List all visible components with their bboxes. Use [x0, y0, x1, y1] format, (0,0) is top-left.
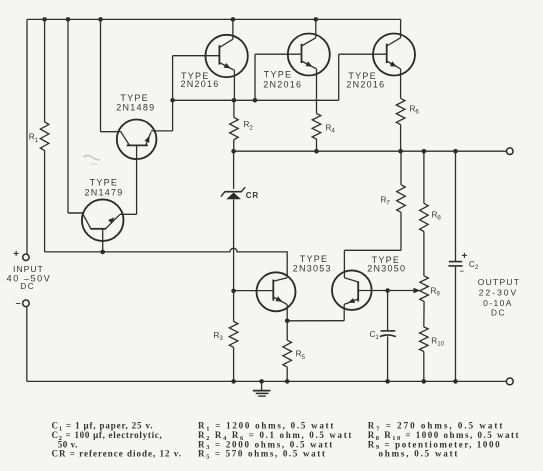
label output DC: [491, 308, 506, 318]
junction: 2N3053 base node: [231, 289, 236, 294]
junction: R6/R7 on mid rail: [398, 149, 403, 154]
label INPUT: [13, 264, 44, 274]
transistor Q3 emitter arrow: [390, 61, 397, 66]
svg-text:2N2016: 2N2016: [181, 79, 220, 89]
diode CR symbol: [221, 187, 245, 199]
parts list R9: [368, 439, 501, 451]
wire: base node to R3: [233, 291, 235, 322]
transistor 2N1479 circle: [82, 199, 124, 241]
wire: CR to 2N3053 base node: [233, 199, 235, 291]
transistor Q1 collector lead: [219, 19, 233, 47]
transistor 2N3053 base bar: [272, 280, 274, 301]
resistor R10: [420, 327, 429, 352]
label R7: [381, 195, 391, 206]
junction: R2 top / Q1 emitter: [232, 98, 237, 103]
transistor 2N1489 base bar: [127, 144, 148, 146]
label input voltage: [7, 273, 52, 283]
transistor 2N1489 circle: [117, 120, 157, 160]
transistor 2N3050 base bar: [357, 281, 359, 301]
svg-text:DC: DC: [20, 281, 35, 291]
svg-text:2N1479: 2N1479: [85, 188, 124, 198]
wire: R8 to R9: [423, 232, 425, 276]
svg-text:ohms, 0.5 watt: ohms, 0.5 watt: [379, 449, 460, 459]
svg-text:CR = reference diode, 12 v.: CR = reference diode, 12 v.: [52, 449, 183, 459]
svg-text:+: +: [462, 251, 468, 262]
svg-text:CR: CR: [246, 191, 259, 200]
terminal: input positive: [23, 254, 29, 260]
transistor 2N1489 emitter arrow: [145, 136, 150, 143]
wire: base line to C1: [387, 291, 389, 331]
transistor 2N3050 circle: [332, 270, 372, 310]
label C2 polarity plus: [462, 251, 468, 262]
wire: R4 to mid rail: [316, 139, 318, 151]
wire: mid rail to CR: [233, 151, 235, 189]
svg-text:R5: R5: [296, 350, 306, 361]
svg-text:OUTPUT: OUTPUT: [478, 277, 520, 287]
transistor Q2 2N2016 circle: [288, 34, 330, 76]
svg-text:2N3053: 2N3053: [293, 263, 332, 273]
transistor Q2 emitter arrow: [306, 61, 313, 66]
svg-text:–: –: [16, 298, 21, 308]
capacitor C1: [380, 331, 396, 337]
parts list R5: [198, 449, 327, 461]
label R8: [432, 210, 442, 221]
parts list R7: [368, 421, 505, 433]
junction: C2 bottom: [453, 379, 458, 384]
label R3: [214, 331, 224, 342]
svg-text:C1: C1: [370, 330, 380, 341]
svg-text:R10: R10: [431, 336, 444, 347]
svg-text:TYPE: TYPE: [264, 69, 293, 79]
resistor R4: [312, 114, 321, 140]
transistor 2N1489 emitter lead: [146, 132, 151, 145]
svg-text:22-30V: 22-30V: [479, 288, 518, 298]
junction: C2 top on mid rail: [453, 149, 458, 154]
wire: R2 to mid rail: [233, 140, 235, 152]
svg-text:2N2016: 2N2016: [263, 79, 302, 89]
transistor Q2 collector lead: [302, 19, 316, 46]
ground symbol: [253, 381, 271, 396]
svg-text:+: +: [13, 249, 19, 260]
label R4: [326, 124, 336, 135]
junction on top rail (2N1489 collector branch): [98, 17, 103, 22]
svg-text:R1: R1: [29, 133, 39, 144]
transistor 2N3050 emitter arrow: [348, 298, 355, 303]
label R1: [29, 133, 39, 144]
wire: 2N1489 emitter to driver node: [151, 100, 173, 131]
wire: top rail to R1: [44, 19, 46, 122]
wire: R6 to mid rail: [400, 125, 402, 152]
svg-text:R8: R8: [432, 210, 442, 221]
terminal: input negative: [23, 300, 30, 307]
transistor 2N3053 collector lead: [273, 278, 287, 282]
wire: R9 to R10: [423, 301, 425, 327]
wire: mid rail to C2: [455, 151, 457, 261]
wire: input + terminal lead: [26, 19, 28, 254]
junction: C1 bottom: [385, 379, 390, 384]
label TYPE 2N2016 (Q3): [346, 71, 385, 90]
svg-text:2N3050: 2N3050: [367, 264, 406, 274]
wire: R1 to bias line: [44, 151, 46, 252]
label output voltage: [479, 288, 518, 298]
junction on top rail (R1 branch): [42, 17, 47, 22]
label R5: [296, 350, 306, 361]
label CR: [246, 191, 259, 200]
junction: Q2 base on node line: [253, 98, 258, 103]
junction: 2N1479 base on bias line: [100, 250, 105, 255]
wire: top rail to 2N1479 collector: [68, 19, 83, 213]
parts list C2: [52, 430, 163, 442]
parts list C1: [52, 421, 154, 433]
label TYPE 2N1479: [85, 178, 124, 198]
label input plus: [13, 249, 19, 260]
transistor Q2 emitter lead: [302, 61, 317, 114]
transistor Q1 2N2016 circle: [205, 35, 247, 77]
junction: R5 bottom: [285, 379, 290, 384]
transistor 2N1489 base lead: [136, 145, 138, 214]
transistor Q3 base bar: [386, 44, 388, 63]
svg-text:C2: C2: [469, 260, 479, 271]
wire: bottom negative rail: [27, 380, 507, 382]
transistor Q3 base lead: [339, 54, 387, 100]
label C1: [370, 330, 380, 341]
parts list R1: [198, 421, 335, 433]
junction: R10 bottom: [422, 379, 427, 384]
label R2: [244, 120, 254, 131]
svg-text:−: −: [460, 269, 464, 276]
svg-text:TYPE: TYPE: [90, 178, 119, 188]
potentiometer R9: [420, 276, 429, 302]
transistor Q3 2N2016 circle: [373, 34, 415, 76]
transistor 2N3053 circle: [257, 272, 296, 311]
parts list R9 cont: [379, 449, 460, 459]
parts list C2 cont: [58, 439, 78, 449]
svg-text:2N2016: 2N2016: [346, 80, 385, 90]
resistor R8: [420, 203, 429, 231]
junction: C1 tap on 2N3050 base line: [385, 288, 390, 293]
junction on top rail (Q2 collector): [314, 17, 319, 22]
parts list R8 R10: [368, 430, 520, 442]
label TYPE 2N2016 (Q2): [263, 69, 302, 89]
label TYPE 2N3050: [367, 255, 406, 274]
svg-text:R2: R2: [244, 120, 254, 131]
transistor Q3 collector lead: [387, 19, 401, 46]
wire: input - lead to bottom rail: [26, 307, 28, 382]
transistor 2N3050 base lead: [358, 290, 414, 292]
wire: mid rail to R8: [423, 151, 425, 203]
svg-text:TYPE: TYPE: [300, 254, 329, 264]
svg-text:R7: R7: [381, 195, 391, 206]
parts list R2 R4 R6: [198, 430, 353, 442]
potentiometer R9 wiper arrow: [413, 288, 420, 294]
junction: R5 top / emitters: [285, 319, 290, 324]
transistor 2N3053 base lead: [234, 290, 274, 292]
svg-text:DC: DC: [491, 308, 506, 318]
wire: top positive rail: [27, 18, 401, 20]
transistor 2N1479 base bar: [90, 228, 106, 230]
resistor R7: [397, 185, 406, 213]
transistor Q1 emitter lead: [219, 63, 234, 101]
label TYPE 2N2016 (Q1): [181, 71, 220, 89]
label R10: [431, 336, 444, 347]
wire: node line to R2: [233, 100, 235, 117]
transistor 2N3053 emitter lead: [273, 297, 287, 321]
label TYPE 2N3053: [293, 254, 332, 274]
svg-text:R9: R9: [431, 286, 441, 297]
transistor 2N1479 base lead: [102, 229, 104, 252]
svg-text:R6: R6: [410, 105, 420, 116]
wire: R3 to bottom rail: [233, 347, 235, 381]
junction: ground stub: [259, 379, 264, 384]
transistor 2N1479 emitter lead: [106, 214, 137, 229]
wire: R7 to 2N3050 collector: [344, 212, 401, 277]
transistor Q2 base lead: [255, 54, 302, 100]
wire: C1 to bottom rail: [387, 336, 389, 381]
transistor Q2 base bar: [301, 44, 303, 63]
label input DC: [20, 281, 35, 291]
resistor R3: [229, 322, 238, 348]
label input minus: [16, 298, 21, 308]
parts list R3: [198, 439, 334, 451]
junction: R3 bottom: [231, 379, 236, 384]
svg-text:R3: R3: [214, 331, 224, 342]
terminal: output positive: [507, 148, 514, 155]
junction on top rail (Q1 collector): [231, 17, 236, 22]
label TYPE 2N1489: [116, 93, 155, 112]
label R6: [410, 105, 420, 116]
junction on top rail (2N1479 collector branch): [66, 17, 71, 22]
svg-text:R4: R4: [326, 124, 336, 135]
transistor 2N3053 emitter arrow: [276, 296, 283, 301]
resistor R2: [230, 118, 239, 140]
wire: top rail to 2N1489 collector: [101, 19, 122, 131]
transistor Q1 emitter arrow: [224, 63, 231, 68]
wire: emitter node to R5: [286, 321, 288, 340]
wire: driver node line: [173, 99, 339, 101]
resistor R5: [283, 340, 292, 367]
terminal: output negative: [506, 378, 513, 385]
wire: bias line R1 to Q4 collector (hops over CR wire): [45, 248, 288, 278]
capacitor C2: [448, 262, 462, 266]
wire: mid rail to output +: [234, 150, 507, 152]
transistor 2N1489 collector lead: [121, 132, 129, 145]
transistor Q1 base lead: [173, 55, 220, 57]
label C2 polarity minus: [460, 269, 464, 276]
wire: R5 to bottom rail: [286, 367, 288, 381]
transistor Q3 emitter lead: [387, 61, 401, 98]
smudge mark (scan artifact): [83, 156, 100, 165]
label R9: [431, 286, 441, 297]
transistor 2N3050 collector lead: [344, 278, 358, 282]
svg-text:2N1489: 2N1489: [116, 102, 155, 112]
label output current: [483, 298, 513, 308]
svg-text:0-10A: 0-10A: [483, 298, 513, 308]
junction: driver node at Q1 base: [170, 98, 175, 103]
resistor R6: [396, 98, 405, 124]
transistor 2N1479 collector lead: [68, 213, 91, 229]
wire: R10 to bottom rail: [423, 352, 425, 382]
parts list CR: [52, 449, 183, 459]
junction: CR top on mid rail: [231, 149, 236, 154]
transistor 2N1479 emitter arrow: [108, 217, 114, 223]
transistor 2N3050 emitter lead: [287, 299, 358, 321]
wire: mid rail to R7: [400, 151, 402, 185]
junction: R8 top on mid rail: [422, 149, 427, 154]
label OUTPUT: [478, 277, 520, 287]
label C2: [469, 260, 479, 271]
wire: Q1 base to driver node: [172, 56, 174, 101]
transistor Q1 base bar: [218, 45, 220, 64]
junction: R4 bottom on mid rail: [314, 149, 319, 154]
svg-text:R5 = 570 ohms, 0.5 watt: R5 = 570 ohms, 0.5 watt: [198, 449, 327, 461]
resistor R1: [40, 122, 49, 151]
wire: C2 to bottom rail: [455, 267, 457, 382]
